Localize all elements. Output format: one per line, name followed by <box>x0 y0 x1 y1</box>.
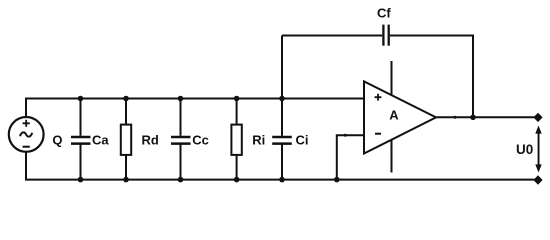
source Q <box>9 117 44 152</box>
wire Cf feedback top right segment and down to output <box>390 36 473 118</box>
node small dot on output wire <box>454 116 457 119</box>
terminal output bottom diamond <box>533 175 542 184</box>
capacitor Cc <box>171 137 191 144</box>
svg-text:U0: U0 <box>516 142 533 157</box>
node junction dots top rail <box>78 96 285 102</box>
svg-text:Rd: Rd <box>142 132 159 147</box>
capacitor Ci <box>272 137 292 144</box>
op-amp U1 <box>364 81 436 153</box>
terminal output top diamond <box>533 113 542 122</box>
wire Rd branch <box>125 99 127 125</box>
wire Cc branch <box>180 99 182 136</box>
svg-text:Ri: Ri <box>252 132 265 147</box>
svg-text:A: A <box>389 108 399 123</box>
wire Ci / feedback node vertical <box>281 36 283 136</box>
svg-text:Cc: Cc <box>192 132 209 147</box>
capacitor Ca <box>71 137 91 144</box>
resistor Ri <box>231 125 241 155</box>
resistor Rd <box>121 125 131 155</box>
wire top rail from source to op-amp + input <box>26 99 364 118</box>
wire inverting input to bottom rail <box>337 135 364 179</box>
wire Cf feedback top left segment <box>282 35 382 37</box>
wire output <box>436 116 538 118</box>
wire op-amp top power pin <box>391 61 393 96</box>
arrow U0 voltage <box>535 126 541 173</box>
wire Ri branch <box>236 99 238 125</box>
capacitor Cf <box>383 25 388 46</box>
wire bottom rail from source to right edge <box>26 152 538 180</box>
svg-text:Cf: Cf <box>377 5 391 20</box>
node small dot on inverting wire <box>344 134 347 137</box>
wire op-amp bottom power pin <box>391 140 393 173</box>
svg-text:Ca: Ca <box>92 132 109 147</box>
svg-text:Q: Q <box>52 132 62 147</box>
node output junction <box>470 115 476 121</box>
wire Ca branch <box>80 99 82 136</box>
node junction dots bottom rail <box>78 177 340 183</box>
svg-text:Ci: Ci <box>296 132 309 147</box>
